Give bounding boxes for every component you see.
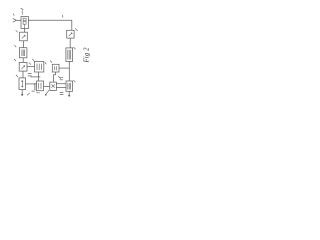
label 40 two dashes — [60, 78, 64, 80]
wire filter 28 down and tee — [31, 72, 41, 81]
label 22 — [27, 93, 30, 95]
coupling element bar — [34, 83, 36, 90]
label 20 — [16, 75, 18, 77]
label 26 — [73, 47, 75, 49]
label tick right of box 38 — [73, 80, 75, 82]
diagonal arrow label 36 — [45, 90, 49, 95]
label 42 two dashes — [60, 92, 64, 94]
transformer box 30 — [37, 81, 44, 91]
AGC amp box 20 — [19, 78, 26, 90]
wire — [69, 38, 71, 48]
wire 30 to 32 — [44, 85, 50, 87]
top wire to right column — [28, 20, 71, 30]
wire osc down to ADC — [54, 72, 56, 82]
label 24 — [75, 29, 77, 31]
output arrow down right — [68, 91, 70, 96]
label 28 — [32, 59, 34, 62]
wire — [22, 58, 24, 63]
two wires 32 to 38 — [56, 84, 66, 88]
label 14 — [16, 30, 18, 32]
wire down right column — [68, 61, 70, 81]
label 12 above duplexer — [21, 8, 24, 14]
antenna — [13, 18, 21, 22]
ADC box 32 — [50, 82, 57, 90]
output arrow down — [21, 90, 23, 96]
ground dashes under coupling — [32, 91, 40, 93]
wire — [23, 41, 25, 48]
label tick on top wire — [61, 15, 64, 18]
wire — [22, 71, 24, 78]
IF filter box 28 — [35, 62, 44, 73]
filter box 26 — [66, 48, 73, 62]
label 18 — [14, 59, 16, 61]
label tick right of box 28 — [45, 62, 47, 64]
SAW filter box 16 — [19, 48, 27, 58]
label 16 — [14, 45, 16, 47]
wire duplexer to amp — [23, 29, 25, 33]
label 10 tick left of antenna — [13, 14, 14, 16]
label 34 — [50, 61, 52, 63]
wire amp 20 to xform 30 — [26, 83, 37, 85]
amplifier box 14 — [20, 32, 28, 41]
wire from amp 18 to filter 28 — [27, 66, 35, 68]
amplifier box 18 — [19, 62, 27, 71]
label tick right of box 18 — [29, 63, 31, 65]
svg-text:Fig 2: Fig 2 — [83, 47, 91, 63]
output filter box 38 — [66, 81, 73, 91]
oscillator box 34 — [52, 64, 59, 72]
label 36 two dashes — [28, 74, 32, 76]
mixer box 24 — [67, 30, 74, 38]
duplexer box 12 — [21, 17, 28, 29]
wire osc to right column — [59, 67, 69, 69]
Fig 2 caption — [83, 47, 91, 63]
label tick near osc down wire — [58, 76, 61, 78]
